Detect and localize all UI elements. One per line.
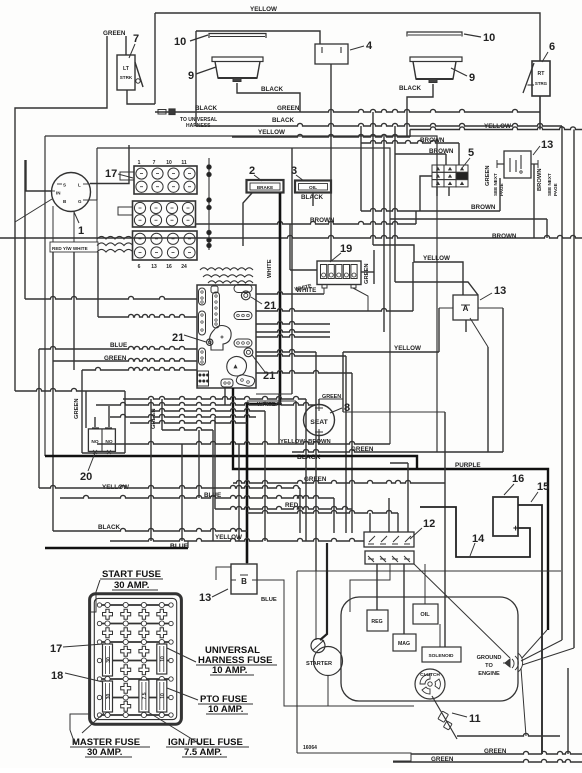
svg-text:13: 13: [199, 592, 211, 604]
svg-text:13: 13: [151, 264, 157, 270]
svg-text:GROUND: GROUND: [477, 655, 502, 661]
svg-text:SOLENOID: SOLENOID: [428, 653, 454, 659]
svg-text:S: S: [63, 183, 66, 188]
svg-text:7.5: 7.5: [142, 692, 148, 699]
svg-text:RED Y/W WHITE: RED Y/W WHITE: [52, 246, 88, 251]
svg-text:10 AMP.: 10 AMP.: [212, 665, 247, 676]
svg-text:7: 7: [133, 33, 139, 45]
svg-text:30: 30: [106, 657, 112, 663]
svg-text:BLACK: BLACK: [272, 117, 294, 124]
svg-text:GREEN: GREEN: [277, 105, 300, 112]
svg-text:16064: 16064: [303, 745, 317, 751]
svg-text:10: 10: [160, 693, 166, 699]
svg-text:ENGINE: ENGINE: [478, 671, 500, 677]
svg-text:BLUE: BLUE: [261, 597, 277, 603]
svg-text:21: 21: [172, 332, 184, 344]
svg-text:GREEN: GREEN: [364, 263, 370, 284]
svg-text:BLACK: BLACK: [399, 85, 421, 92]
svg-text:19: 19: [340, 243, 352, 255]
svg-text:TO: TO: [485, 663, 493, 669]
svg-text:NO: NO: [91, 439, 98, 445]
svg-text:30: 30: [106, 694, 112, 700]
svg-text:STRG: STRG: [535, 81, 548, 86]
svg-text:18: 18: [51, 670, 63, 682]
svg-text:OIL: OIL: [309, 185, 317, 191]
svg-text:14: 14: [472, 533, 485, 545]
svg-text:BLUE: BLUE: [110, 342, 127, 349]
svg-text:REG: REG: [371, 619, 382, 625]
svg-text:24: 24: [181, 264, 187, 270]
svg-text:10: 10: [166, 160, 172, 166]
svg-text:+: +: [513, 523, 518, 533]
svg-text:12: 12: [423, 518, 435, 530]
svg-text:OIL: OIL: [420, 612, 430, 618]
svg-text:PAGE: PAGE: [553, 183, 558, 196]
svg-text:BROWN: BROWN: [310, 217, 335, 224]
svg-text:MAG: MAG: [398, 641, 410, 647]
svg-text:GREEN: GREEN: [103, 30, 126, 37]
svg-text:17: 17: [105, 168, 117, 180]
svg-text:YELLOW: YELLOW: [258, 129, 285, 136]
svg-text:SEE NEXT: SEE NEXT: [493, 173, 498, 196]
svg-text:GREEN: GREEN: [485, 165, 491, 186]
svg-text:BLACK: BLACK: [195, 105, 217, 112]
svg-text:RED: RED: [285, 502, 299, 509]
svg-text:9: 9: [469, 72, 475, 84]
svg-text:4: 4: [366, 40, 373, 52]
svg-text:BLACK: BLACK: [261, 86, 283, 93]
svg-text:8: 8: [344, 402, 350, 414]
svg-text:SEAT: SEAT: [310, 419, 328, 426]
svg-text:BROWN: BROWN: [492, 233, 517, 240]
svg-text:21: 21: [264, 300, 276, 312]
svg-text:GREEN: GREEN: [74, 398, 80, 419]
svg-text:1: 1: [138, 160, 141, 166]
svg-text:30 AMP.: 30 AMP.: [87, 747, 122, 758]
svg-text:6: 6: [138, 264, 141, 270]
svg-text:10: 10: [174, 36, 186, 48]
svg-text:SEE NEXT: SEE NEXT: [547, 173, 552, 196]
svg-text:10: 10: [483, 32, 495, 44]
svg-text:BROWN: BROWN: [471, 204, 496, 211]
svg-text:STRK: STRK: [120, 75, 133, 80]
svg-text:IN: IN: [56, 191, 61, 196]
svg-text:BRAKE: BRAKE: [257, 185, 273, 190]
svg-text:10: 10: [160, 656, 166, 662]
svg-text:WHITE: WHITE: [267, 259, 273, 278]
svg-text:17: 17: [50, 643, 62, 655]
svg-text:16: 16: [512, 473, 524, 485]
svg-text:NO: NO: [105, 439, 112, 445]
svg-text:BLACK: BLACK: [98, 524, 120, 531]
svg-text:START FUSE: START FUSE: [102, 569, 161, 580]
svg-text:L: L: [78, 183, 81, 188]
svg-text:9: 9: [188, 70, 194, 82]
svg-text:G: G: [78, 199, 82, 204]
svg-text:6: 6: [549, 41, 555, 53]
svg-text:7: 7: [153, 160, 156, 166]
svg-text:B: B: [241, 577, 247, 586]
svg-text:15: 15: [537, 481, 549, 493]
svg-text:10 AMP.: 10 AMP.: [208, 704, 243, 715]
svg-text:BLACK: BLACK: [301, 194, 323, 201]
svg-text:11: 11: [181, 160, 187, 166]
svg-text:LT: LT: [123, 66, 130, 72]
svg-text:YELLOW: YELLOW: [394, 345, 421, 352]
svg-text:20: 20: [80, 471, 92, 483]
svg-text:1: 1: [78, 225, 84, 237]
svg-text:30 AMP.: 30 AMP.: [114, 580, 149, 591]
svg-text:YELLOW: YELLOW: [423, 255, 450, 262]
svg-text:RT: RT: [538, 71, 546, 77]
svg-text:YELLOW: YELLOW: [250, 6, 277, 13]
svg-text:YELLOW: YELLOW: [215, 534, 242, 541]
svg-text:13: 13: [494, 285, 506, 297]
svg-text:5: 5: [468, 147, 474, 159]
svg-text:13: 13: [541, 139, 553, 151]
svg-text:7.5 AMP.: 7.5 AMP.: [184, 747, 222, 758]
svg-text:STARTER: STARTER: [306, 661, 332, 667]
svg-text:BROWN: BROWN: [537, 168, 543, 191]
svg-text:16: 16: [166, 264, 172, 270]
svg-text:11: 11: [469, 713, 481, 725]
